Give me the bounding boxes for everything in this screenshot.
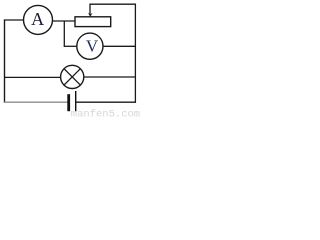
wire: bottom-left (gray) from left rail to battery (4, 101, 68, 103)
wire: top-left from rail to ammeter (4, 19, 24, 21)
ammeter A (24, 5, 53, 34)
voltmeter V (77, 33, 103, 59)
svg-text:manfen5.com: manfen5.com (71, 108, 140, 118)
svg-text:V: V (86, 37, 99, 56)
wire: lamp to right rail (84, 76, 136, 78)
svg-text:A: A (31, 9, 44, 29)
battery cell: thick short plate (negative) (67, 94, 70, 111)
wire: top from wiper to right rail (89, 3, 136, 5)
wire: right rail (134, 4, 136, 103)
wire: voltmeter to right rail (103, 45, 136, 47)
wire: battery to right rail (bottom) (76, 101, 136, 103)
wire: left rail to lamp (4, 76, 61, 78)
wire: ammeter to rheostat (52, 20, 75, 22)
rheostat wiper arrow (88, 4, 92, 17)
resistor (rheostat) box R (75, 17, 111, 27)
battery cell: thin long plate (positive) (75, 91, 76, 112)
wire: junction stub down (63, 21, 65, 46)
lamp L (circle with X) (61, 65, 84, 88)
wire: stub to voltmeter (64, 45, 77, 47)
wire: left rail (4, 20, 6, 103)
